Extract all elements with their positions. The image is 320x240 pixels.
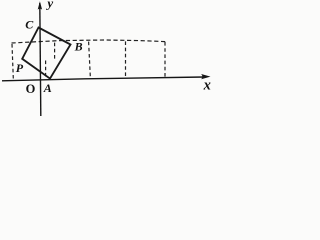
svg-text:B: B [74,39,83,53]
svg-text:x: x [203,78,211,94]
svg-text:O: O [26,82,36,96]
svg-text:P: P [16,61,24,75]
svg-text:A: A [43,81,52,95]
svg-text:C: C [25,17,34,31]
svg-text:y: y [45,0,53,10]
